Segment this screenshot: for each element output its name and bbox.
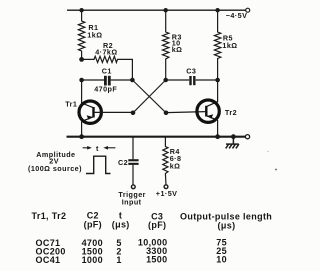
svg-text:C3: C3 [186, 67, 196, 76]
svg-text:t: t [96, 144, 99, 153]
svg-text:kΩ: kΩ [170, 161, 181, 170]
svg-text:C1: C1 [102, 67, 112, 76]
svg-text:1kΩ: 1kΩ [222, 41, 237, 50]
node top of R3 [164, 8, 168, 12]
svg-text:1: 1 [116, 255, 121, 265]
terminal ground rail right [245, 135, 249, 139]
transistor Tr2 [197, 100, 237, 122]
node Tr1 base cross [131, 111, 136, 116]
node C1 left [79, 78, 84, 83]
wire bottom ground rail [67, 136, 246, 138]
resistor R1 1kΩ [78, 10, 102, 59]
wire Tr2 collector lead [217, 80, 219, 102]
resistor R3 10kΩ [163, 10, 183, 80]
wire cross-coupling diagonal Tr1 base to C3 [133, 80, 166, 113]
svg-text:4·7kΩ: 4·7kΩ [95, 47, 117, 56]
node top of R5 [215, 8, 219, 12]
node R1/R2 junction [79, 57, 84, 62]
node Tr1 emitter at rail [79, 134, 84, 139]
table row OC71 [36, 238, 228, 249]
svg-text:OC41: OC41 [36, 255, 61, 265]
svg-text:1000: 1000 [82, 255, 103, 265]
node C3 left [163, 78, 168, 83]
trigger pulse waveform annotation [28, 144, 115, 174]
ground earth symbol [226, 137, 239, 149]
resistor R2 4.7kΩ [82, 41, 133, 80]
node ground stub [231, 134, 236, 139]
terminal trigger input [118, 185, 146, 206]
wire Tr1 emitter lead [81, 121, 83, 137]
table row OC200 [36, 246, 228, 257]
node Tr2 base cross [164, 111, 169, 116]
svg-text:Input: Input [122, 197, 142, 206]
svg-text:(μs): (μs) [112, 219, 130, 229]
node C3 right [215, 78, 220, 83]
node top of R1 [79, 8, 83, 12]
svg-text:470pF: 470pF [94, 85, 117, 94]
scan speck [267, 151, 268, 152]
svg-text:kΩ: kΩ [172, 45, 183, 54]
svg-text:1kΩ: 1kΩ [87, 31, 102, 40]
table row OC41 [36, 255, 228, 266]
wire Tr1 collector lead [81, 80, 83, 103]
svg-text:−4·5V: −4·5V [226, 11, 248, 20]
wire Tr1 base to node [94, 111, 133, 113]
svg-text:(pF): (pF) [148, 220, 166, 230]
resistor R5 1kΩ [214, 10, 237, 80]
wire top supply rail [67, 9, 246, 11]
capacitor C3 [166, 67, 218, 86]
svg-text:C2: C2 [118, 158, 128, 167]
node Tr2 emitter at rail [215, 134, 220, 139]
node C1 right / R2 bottom [130, 78, 135, 83]
table header [32, 211, 273, 231]
svg-text:1500: 1500 [146, 255, 167, 265]
resistor R4 6.8kΩ [163, 137, 182, 185]
scan speck [275, 169, 277, 171]
svg-text:Tr1, Tr2: Tr1, Tr2 [32, 211, 67, 221]
svg-text:+1·5V: +1·5V [156, 189, 178, 198]
terminal +1.5V [156, 185, 178, 198]
wire Tr2 base from node [166, 112, 206, 113]
svg-text:10: 10 [216, 255, 227, 265]
wire cross-coupling diagonal C1 to Tr2 base [132, 80, 166, 113]
svg-text:Tr1: Tr1 [65, 100, 77, 109]
transistor Tr1 [65, 100, 101, 124]
svg-text:Tr2: Tr2 [225, 108, 237, 117]
svg-text:(pF): (pF) [84, 219, 102, 229]
terminal -4.5V supply [226, 8, 250, 20]
capacitor C1 470pF [82, 67, 133, 94]
wire Tr2 emitter lead [217, 120, 219, 137]
svg-text:(100Ω source): (100Ω source) [28, 164, 82, 173]
svg-text:(μs): (μs) [218, 220, 236, 230]
capacitor C2 [118, 137, 139, 185]
